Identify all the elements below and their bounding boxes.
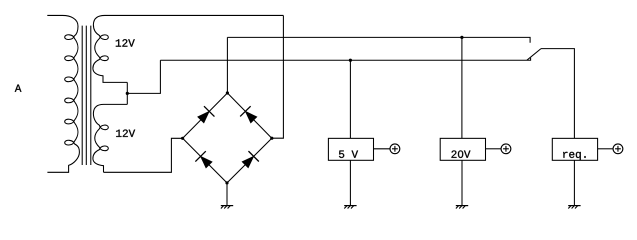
wire center-tap 12V rail to switch lower contact with up-stub [160, 58, 530, 60]
value label 12V (upper secondary) [116, 39, 135, 46]
regulator box 20V [440, 138, 485, 160]
junction dot 5 V tap on center-tap rail [349, 59, 352, 62]
output terminal circle of 5 V box [374, 144, 400, 154]
diode D3 (- bottom node to AC left node) [195, 151, 212, 168]
label A (primary input) [15, 85, 22, 92]
regulator box req. [552, 138, 597, 160]
diode D1 (AC left node to + top node) [198, 106, 215, 123]
bridge rectifier diamond wiring [183, 93, 272, 183]
transformer T1 core (three lamination lines) [82, 26, 91, 165]
junction dot bridge - bottom node [225, 181, 228, 184]
junction dot bridge AC left node [181, 137, 184, 140]
ground below 5 V box [344, 160, 356, 208]
wire center tap out to rail riser [127, 60, 160, 93]
value label 12V (lower secondary) [116, 130, 135, 137]
switch SW1 lever (selecting center-tap rail) [527, 49, 541, 61]
wire rectified rail to switch upper contact with down-stub [227, 37, 530, 42]
ground below 20V box [456, 160, 468, 208]
diode D4 (- bottom node to AC right node) [242, 151, 259, 168]
wire lower secondary lead to bridge AC left node [104, 138, 183, 172]
wire bridge + output riser [226, 37, 228, 93]
regulator box 5 V [328, 138, 373, 160]
transformer T1 secondary upper winding (12V) with top lead [93, 15, 284, 82]
ground below bridge rectifier [221, 183, 233, 209]
transformer T1 primary winding with open leads (input A) [47, 15, 79, 172]
junction dot 20V tap on rectified rail [460, 36, 463, 39]
wire upper secondary lead down to bridge AC right node [272, 15, 284, 138]
wire 5 V box input drop [349, 60, 351, 138]
junction dot bridge + top node [226, 91, 229, 94]
wire center-tap vertical between secondary windings [126, 82, 128, 104]
output terminal circle of req. box [598, 144, 623, 154]
transformer T1 secondary lower winding (12V) [93, 104, 127, 172]
junction dot bridge AC right node [270, 137, 273, 140]
wire 20V box input drop [461, 37, 463, 138]
output terminal circle of 20V box [486, 144, 511, 154]
diode D2 (AC right node to + top node) [240, 106, 257, 123]
junction dot center tap node [126, 92, 129, 95]
ground below req. box [568, 160, 580, 208]
wire switch common down to req. box [541, 49, 574, 139]
